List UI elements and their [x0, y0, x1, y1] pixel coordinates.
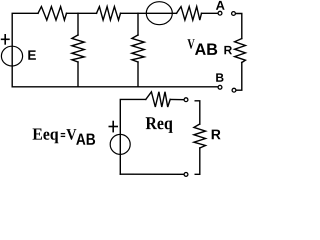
label AB subscript (bottom)	[76, 134, 95, 145]
wire bracket bottom corner	[195, 148, 200, 174]
plus sign of Eeq source	[109, 122, 117, 132]
label V of VAB (bottom)	[66, 129, 76, 140]
resistor Req zigzag	[146, 92, 170, 107]
wire branch 2 upper stub	[137, 13, 139, 35]
label B	[216, 73, 223, 81]
wire between R1 and R2	[67, 12, 97, 14]
label E	[28, 50, 36, 59]
label A	[216, 1, 225, 10]
label R (bottom circuit)	[212, 130, 221, 140]
terminal A2 (right circle)	[232, 12, 236, 16]
resistor R2 (top middle horizontal)	[97, 7, 121, 21]
terminal (bottom circuit top)	[184, 98, 188, 102]
resistor R (load, bottom circuit vertical)	[194, 124, 206, 148]
wire bottom circuit left/top	[120, 99, 146, 174]
wire branch 1 lower stub	[77, 62, 79, 87]
wire Req to top terminal	[170, 98, 184, 100]
resistor R3 (top right horizontal)	[177, 7, 202, 21]
wire from R2 through source circle	[121, 12, 177, 14]
label V of VAB (top)	[187, 39, 194, 49]
resistor (middle vertical branch 1)	[72, 35, 84, 62]
source U1 (circle on top wire)	[146, 2, 172, 25]
voltage source E (circle)	[1, 46, 22, 66]
resistor R (right vertical, top circuit)	[235, 39, 246, 63]
wire bracket top corner	[195, 101, 200, 124]
wire branch 2 lower stub	[137, 62, 139, 87]
label R (top circuit)	[224, 46, 232, 54]
resistor R1 (top left horizontal)	[38, 7, 67, 21]
wire branch 1 upper stub	[77, 13, 79, 35]
wire terminal A2 to right corner	[236, 14, 242, 39]
plus sign of E	[2, 35, 9, 44]
wire bottom of bottom circuit	[120, 173, 183, 175]
terminal B (left circle)	[218, 85, 222, 89]
terminal (bottom circuit bottom)	[184, 173, 188, 177]
label AB subscript (top)	[195, 44, 217, 55]
label Req	[146, 117, 173, 133]
resistor (middle vertical branch 2)	[132, 35, 144, 62]
wire R3 to terminal A	[202, 12, 218, 14]
terminal A (left circle)	[218, 11, 222, 15]
wire right branch down to terminal B2	[236, 63, 242, 91]
wire bottom of top circuit	[12, 86, 218, 88]
label equals sign	[61, 134, 65, 137]
terminal B2 (right circle)	[232, 88, 236, 92]
voltage source Eeq (circle)	[110, 134, 130, 154]
label Eeq	[33, 129, 59, 144]
wire top-left segment	[12, 13, 38, 87]
